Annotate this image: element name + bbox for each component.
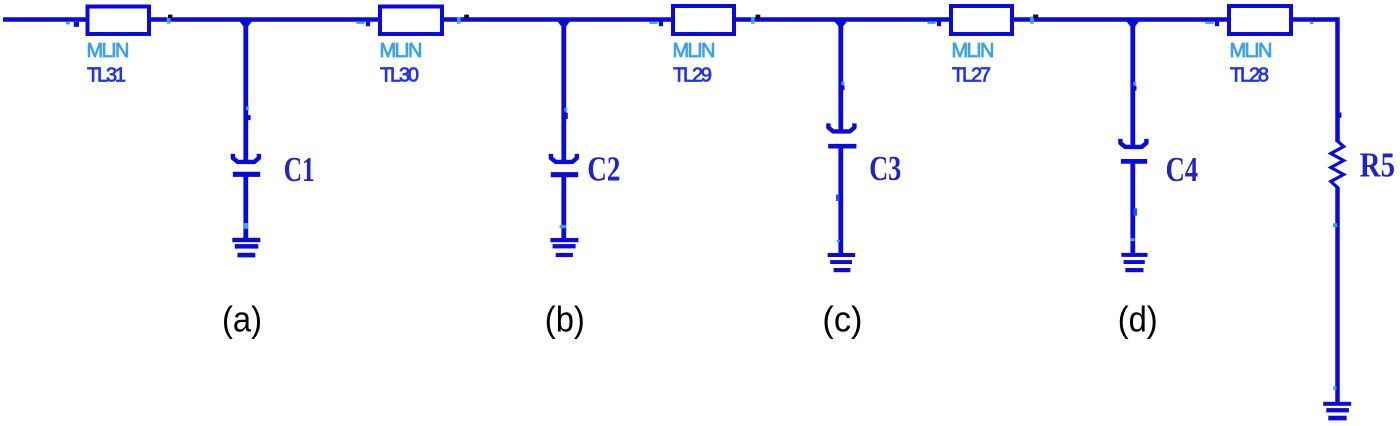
capacitor C2 straight plate: [551, 172, 578, 177]
pin marks on C2 stub: [560, 108, 568, 228]
svg-text:C2: C2: [587, 151, 620, 189]
pin marks right of TL30: [457, 15, 469, 24]
capacitor C1 straight plate: [233, 172, 260, 177]
wire shunt stub node A to C1: [243, 20, 248, 161]
pin marks right of TL31: [167, 15, 173, 24]
svg-text:R5: R5: [1360, 147, 1395, 185]
svg-text:TL29: TL29: [673, 64, 712, 86]
svg-text:(a): (a): [222, 299, 262, 340]
wire shunt stub node D to C4: [1130, 20, 1135, 147]
ground G2 under C2: [550, 238, 578, 257]
capacitor C3 symbol curved plate: [828, 123, 854, 131]
transmission line TL28 box: [1229, 6, 1291, 34]
wire C2 to ground: [561, 175, 566, 239]
pin marks left of TL30: [356, 21, 370, 26]
transmission line TL29 box: [673, 6, 734, 34]
svg-text:(b): (b): [545, 299, 585, 340]
wire C3 to ground: [838, 147, 843, 254]
ground G3 under C3: [828, 253, 856, 272]
ground G5 under R5: [1323, 402, 1351, 421]
junction node A: [240, 22, 253, 27]
pin marks on C1 stub: [243, 107, 250, 229]
svg-text:MLIN: MLIN: [380, 40, 422, 62]
svg-text:MLIN: MLIN: [1230, 40, 1272, 62]
pin marks on C4 stub: [1130, 82, 1137, 241]
wire shunt stub node C to C3: [838, 20, 843, 132]
capacitor C1 symbol curved plate: [233, 154, 259, 162]
pin mark right of TL28: [1310, 22, 1314, 24]
capacitor C3 straight plate: [828, 144, 856, 149]
resistor R5 zigzag: [1331, 139, 1344, 190]
pin marks on C3 stub: [836, 82, 845, 243]
pin marks left of TL31: [66, 22, 79, 27]
wire right vertical drop to R5: [1335, 17, 1340, 142]
ground G4 under C4: [1121, 253, 1147, 272]
svg-text:MLIN: MLIN: [952, 40, 994, 62]
junction node C: [835, 22, 848, 27]
pin marks left of TL28: [1205, 21, 1219, 26]
transmission line TL27 box: [951, 6, 1012, 34]
svg-text:MLIN: MLIN: [673, 40, 715, 62]
transmission line TL31 box: [88, 7, 150, 35]
capacitor C4 symbol curved plate: [1120, 139, 1146, 147]
svg-text:(c): (c): [822, 299, 862, 340]
pin marks left of TL27: [927, 21, 941, 26]
pin marks right of TL29: [751, 15, 760, 24]
junction node D: [1127, 22, 1140, 27]
transmission line TL30 box: [380, 7, 442, 35]
svg-text:TL27: TL27: [952, 64, 991, 86]
svg-text:MLIN: MLIN: [87, 40, 129, 62]
svg-text:C4: C4: [1166, 151, 1199, 189]
wire top horizontal bus: [3, 17, 1338, 22]
ground G1 under C1: [232, 238, 260, 258]
wire C1 to ground: [243, 175, 248, 239]
pin marks right of TL27: [1030, 15, 1038, 24]
wire shunt stub node B to C2: [561, 20, 566, 162]
capacitor C4 straight plate: [1121, 159, 1147, 164]
svg-text:(d): (d): [1118, 299, 1158, 340]
pin marks left of TL29: [649, 21, 663, 26]
capacitor C2 symbol curved plate: [551, 154, 577, 162]
pin marks on R5 branch: [1333, 112, 1341, 390]
svg-text:C3: C3: [869, 150, 901, 188]
svg-text:TL28: TL28: [1230, 64, 1269, 86]
svg-text:TL31: TL31: [87, 64, 126, 86]
junction node B: [558, 22, 571, 27]
svg-text:C1: C1: [284, 151, 315, 189]
svg-text:TL30: TL30: [380, 64, 419, 86]
wire C4 to ground: [1130, 162, 1135, 254]
